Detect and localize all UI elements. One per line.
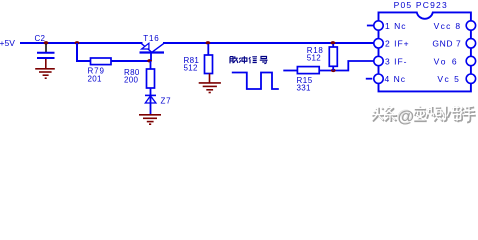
watermark 头条 @变频小帮手 (embossed grey, hand-drawn glyphs) xyxy=(371,105,476,126)
ground for R81 xyxy=(199,74,221,93)
node junction at C2 xyxy=(44,41,49,44)
svg-text:+5V: +5V xyxy=(0,38,15,48)
resistor R15 xyxy=(297,67,320,93)
svg-text:4 Nc: 4 Nc xyxy=(385,74,406,84)
svg-text:C2: C2 xyxy=(35,34,46,43)
svg-text:T16: T16 xyxy=(143,34,159,43)
wire IF- net: right segment with jog up to pin 3 xyxy=(319,61,374,71)
transistor T16 xyxy=(140,34,165,60)
svg-text:GND 7: GND 7 xyxy=(432,39,461,49)
pin stub pin 1 xyxy=(367,25,374,27)
ground for Z7 xyxy=(139,115,161,124)
wire +5V rail right segment (collector to pin 2) xyxy=(163,42,374,44)
resistor R79 xyxy=(88,58,112,83)
svg-text:2 IF+: 2 IF+ xyxy=(385,39,410,49)
svg-text:Vo 6: Vo 6 xyxy=(434,56,459,66)
svg-text:331: 331 xyxy=(297,83,311,92)
pin stub pin 4 xyxy=(366,78,373,80)
pin labels row 2: 2 IF+ / GND 7 xyxy=(385,39,461,49)
svg-text:Vcc 8: Vcc 8 xyxy=(434,21,462,31)
zener diode Z7 xyxy=(145,88,171,114)
pin circles right (pins 5-8) xyxy=(466,21,475,84)
ground for C2 xyxy=(35,59,55,78)
resistor R18 xyxy=(307,44,338,71)
label 脉冲信号 (pulse signal, hand-drawn glyphs) xyxy=(230,56,268,63)
resistor R81 xyxy=(184,44,213,74)
pin circles left (pins 1-4) xyxy=(374,21,383,84)
node junction at R81 xyxy=(206,41,211,44)
node junction at R79 branch xyxy=(75,41,80,44)
pin labels row 3: 3 IF- / Vo 6 xyxy=(385,56,459,66)
wire R79 to base node xyxy=(111,60,151,62)
wire IF- net: left segment xyxy=(283,70,297,72)
svg-text:512: 512 xyxy=(307,54,321,63)
node junction R18 bottom xyxy=(331,69,336,72)
svg-text:512: 512 xyxy=(184,64,198,73)
svg-text:@: @ xyxy=(398,107,415,125)
wire +5V rail left segment xyxy=(20,42,143,44)
svg-text:Vc 5: Vc 5 xyxy=(437,74,460,84)
node junction R18 top xyxy=(331,41,336,44)
svg-text:1 Nc: 1 Nc xyxy=(385,21,406,31)
svg-text:3 IF-: 3 IF- xyxy=(385,56,407,66)
svg-text:P05 PC923: P05 PC923 xyxy=(394,0,448,10)
wire R79 branch: down and right xyxy=(77,43,91,61)
resistor R80 xyxy=(124,61,155,88)
svg-text:Z7: Z7 xyxy=(161,97,172,106)
pin labels row 1: 1 Nc / Vcc 8 xyxy=(385,21,461,31)
svg-text:201: 201 xyxy=(88,74,102,83)
pin labels row 4: 4 Nc / Vc 5 xyxy=(385,74,461,84)
node junction at T16 base / R80 xyxy=(147,59,152,62)
capacitor C2 xyxy=(35,34,55,58)
optocoupler U1 P05 PC923 body xyxy=(379,0,471,91)
svg-text:200: 200 xyxy=(124,75,138,84)
pulse waveform annotation xyxy=(232,73,279,90)
